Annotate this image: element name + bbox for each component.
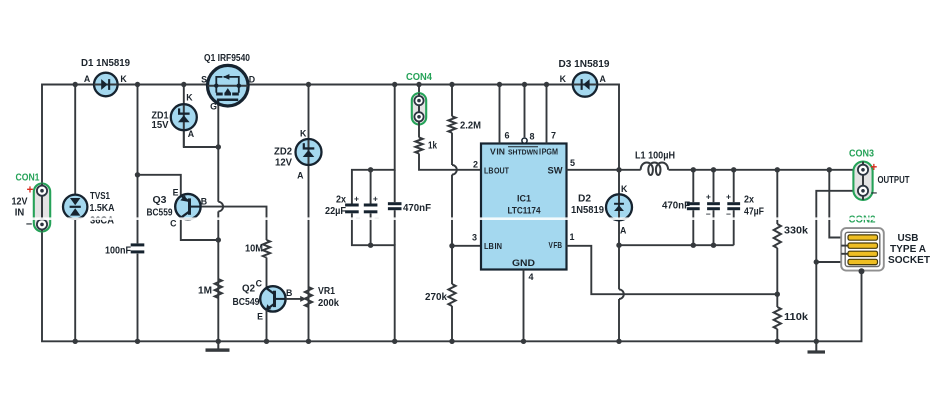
wire TVS1 branch (74, 85, 76, 342)
svg-text:USB: USB (898, 233, 919, 244)
svg-text:7: 7 (551, 131, 556, 141)
junction caps gnd left (616, 243, 621, 248)
svg-text:C: C (256, 279, 263, 289)
junction 110k ground (775, 339, 780, 344)
USB contact bar 3 (848, 251, 878, 256)
resistor 2.2M (448, 116, 455, 132)
junction 100nF top (135, 82, 140, 87)
svg-text:VR1: VR1 (318, 286, 335, 297)
svg-text:36CA: 36CA (90, 216, 114, 227)
wire output caps bottom rail (619, 244, 734, 246)
svg-text:V IN: V IN (490, 147, 505, 157)
junction TVS1 top (73, 82, 78, 87)
wire input capacitor bank riser and top rail (352, 85, 395, 204)
junction 47uF no1 top (711, 167, 716, 172)
svg-text:D3 1N5819: D3 1N5819 (559, 59, 610, 70)
zener ZD1 15V (171, 104, 197, 130)
wire Q2 emitter to ground rail (266, 310, 268, 341)
diode TVS1 1.5KA36CA (63, 195, 87, 219)
svg-text:BC549: BC549 (233, 297, 260, 308)
connector CON4 (412, 93, 426, 124)
junction caps riser top (392, 82, 397, 87)
junction SHTDWN riser (522, 82, 527, 87)
svg-text:G: G (210, 102, 217, 112)
hop 2.2M line over 1k wire (452, 165, 457, 175)
wire VFB pin1 to divider (567, 246, 778, 294)
svg-text:330k: 330k (784, 226, 808, 237)
capacitor 100nF (131, 243, 145, 246)
svg-text:TYPE A: TYPE A (890, 244, 926, 255)
wire L1 to CON3 plus (669, 169, 858, 171)
svg-text:22µF: 22µF (325, 206, 346, 217)
junction CON4 top (416, 82, 421, 87)
junction 330k top (775, 167, 780, 172)
svg-text:A: A (600, 74, 607, 84)
svg-text:12V: 12V (275, 158, 292, 169)
wire 10M to Q2 collector (266, 258, 268, 290)
junction 5V feed (827, 167, 832, 172)
resistor 1M (215, 279, 222, 298)
wire USB 5V feed (829, 170, 848, 238)
svg-text:12V: 12V (12, 197, 28, 208)
svg-text:Q3: Q3 (153, 195, 167, 206)
svg-text:LB OUT: LB OUT (484, 166, 510, 176)
wire 100nF branch (137, 85, 139, 244)
wire D2 anode to ground with hop over VFB line (618, 220, 620, 245)
svg-text:1k: 1k (428, 141, 437, 152)
wire SW output line to L1 and CON3 (567, 169, 641, 171)
resistor 110k (774, 307, 781, 329)
diode D3 1N5819 (573, 72, 597, 96)
svg-text:S: S (201, 75, 207, 85)
wire Q3 base to 10M (201, 207, 267, 240)
wire IC1 pin 8 SHTDWN riser (524, 85, 526, 138)
wire IC1 pin 7 IPGM riser (546, 85, 548, 144)
junction ground rail right (814, 339, 819, 344)
svg-text:–: – (726, 209, 731, 219)
svg-text:6: 6 (505, 131, 510, 141)
svg-text:4: 4 (529, 272, 534, 282)
connector CON2 USB socket inner (845, 232, 880, 266)
inductor L1 100uH (641, 162, 668, 175)
junction IC GND ground (521, 339, 526, 344)
junction VIN riser (497, 82, 502, 87)
wire output caps top stubs (692, 170, 694, 202)
svg-text:D2: D2 (578, 194, 591, 205)
USB contact bar 4 (848, 259, 878, 264)
svg-text:LB IN: LB IN (484, 241, 502, 251)
potentiometer VR1 200k (305, 287, 312, 307)
svg-text:+: + (373, 194, 378, 204)
svg-text:1: 1 (570, 232, 575, 242)
wire Q3 emitter stub (138, 175, 181, 196)
svg-text:SOCKET: SOCKET (888, 255, 930, 266)
junction SW D3 D2 node (616, 167, 621, 172)
diode D1 1N5819 (94, 73, 118, 97)
svg-text:A: A (620, 226, 627, 236)
svg-text:1M: 1M (198, 286, 212, 297)
IC IC1 LTC1174 box (481, 144, 567, 270)
svg-text:K: K (621, 184, 628, 194)
junction USB ground tap (814, 259, 819, 264)
svg-text:I PGM: I PGM (539, 148, 558, 157)
wire 330k 110k divider branch (776, 170, 778, 224)
svg-text:+: + (27, 185, 34, 197)
junction 1M ground (216, 339, 221, 344)
svg-text:Q2: Q2 (242, 284, 255, 295)
USB pin stubs D- D+ (841, 245, 848, 247)
svg-text:LTC1174: LTC1174 (508, 206, 542, 217)
junction Q3 emitter tap (135, 172, 140, 177)
svg-text:K: K (560, 74, 567, 84)
svg-text:CON3: CON3 (849, 149, 874, 160)
svg-text:100nF: 100nF (105, 246, 131, 257)
svg-text:BC559: BC559 (147, 208, 173, 219)
resistor 330k (774, 224, 781, 248)
junction ZD1 top (181, 82, 186, 87)
USB contact bar 1 (848, 235, 878, 240)
svg-text:A: A (297, 171, 304, 181)
capacitor 47uF no1 (707, 202, 720, 205)
svg-text:200k: 200k (318, 298, 339, 309)
svg-text:K: K (120, 74, 127, 84)
junction cap 22uF no2 top (368, 167, 373, 172)
junction 270k ground (449, 339, 454, 344)
svg-text:SW: SW (548, 166, 563, 177)
junction cap 22uF no2 bottom (368, 243, 373, 248)
junction gate and ZD1 anode (216, 144, 221, 149)
junction caps bottom rail to ground (392, 339, 397, 344)
svg-text:CON4: CON4 (406, 72, 432, 83)
junction D2 ground rail (616, 339, 621, 344)
resistor 10M (263, 240, 270, 258)
capacitor 22uF no2 (364, 204, 378, 207)
capacitor 47uF no2 (727, 202, 740, 205)
svg-text:1N5819: 1N5819 (571, 205, 604, 216)
resistor 270k (448, 284, 455, 306)
svg-text:2.2M: 2.2M (460, 121, 481, 132)
wire 2.2M LBIN 270k branch (451, 85, 453, 117)
connector CON4 riser (418, 85, 420, 94)
svg-text:15V: 15V (152, 120, 169, 131)
junction Q3 collector and 1M (216, 237, 221, 242)
zener ZD2 12V (296, 139, 322, 165)
diode D2 1N5819 (606, 194, 632, 220)
svg-text:8: 8 (530, 132, 535, 142)
svg-text:B: B (286, 288, 292, 298)
svg-text:2x: 2x (744, 195, 754, 206)
wire ZD1 branch from rail to gate node (183, 85, 185, 148)
svg-text:E: E (173, 188, 179, 198)
wire ZD2 VR1 branch (308, 85, 310, 141)
svg-text:D: D (249, 75, 255, 85)
svg-text:TVS1: TVS1 (90, 191, 110, 202)
svg-text:K: K (186, 93, 193, 103)
scan artifact white line (0, 217, 932, 220)
svg-text:OUTPUT: OUTPUT (878, 175, 910, 186)
wire bottom ground rail (42, 232, 862, 342)
ground symbol left (217, 341, 219, 349)
junction 470nF bottom (691, 243, 696, 248)
connector CON1 12V input (34, 184, 50, 232)
svg-text:47µF: 47µF (744, 207, 764, 218)
junction Q2 emitter ground (264, 339, 269, 344)
pin 8 inversion bubble (522, 138, 527, 143)
transistor Q1 IRF9540 P-MOSFET (208, 65, 249, 106)
wire Q3 collector stub (181, 218, 219, 241)
svg-text:SHTDWN: SHTDWN (508, 148, 538, 157)
junction USB shield bottom (859, 268, 865, 274)
svg-text:+: + (726, 192, 731, 202)
svg-text:Q1 IRF9540: Q1 IRF9540 (204, 53, 250, 64)
svg-text:3: 3 (472, 233, 477, 243)
svg-text:L1 100µH: L1 100µH (635, 151, 675, 162)
USB contact bar 2 (848, 243, 878, 248)
wire 1k to IC pin 2 LBOUT (419, 154, 481, 170)
junction 100nF bottom (135, 339, 140, 344)
svg-text:+: + (354, 194, 359, 204)
junction 47uF bottom (711, 243, 716, 248)
junction LBIN tap (449, 243, 454, 248)
wire Q2 base to VR1 wiper with arrow (286, 298, 303, 300)
junction 470nF top (691, 167, 696, 172)
svg-text:ZD2: ZD2 (274, 147, 292, 158)
ground symbol right (815, 341, 817, 351)
svg-text:E: E (257, 312, 263, 322)
svg-text:2x: 2x (336, 195, 346, 206)
junction IPGM riser (544, 82, 549, 87)
wire IC1 pin 4 GND to ground rail (523, 270, 525, 342)
svg-text:B: B (201, 197, 207, 207)
connector CON3 output (853, 162, 872, 200)
svg-text:–: – (706, 209, 711, 219)
svg-text:CON1: CON1 (16, 173, 40, 184)
wire LBIN stub to IC pin 3 (452, 245, 481, 247)
wire input capacitor bank bottom rail (352, 213, 395, 341)
capacitor 470nF output (687, 202, 700, 205)
svg-text:IC1: IC1 (517, 194, 532, 205)
svg-text:IN: IN (15, 208, 25, 219)
wire USB ground feed (816, 261, 848, 263)
junction divider mid VFB (775, 292, 780, 297)
transistor Q2 BC549 (260, 286, 285, 311)
connector CON2 USB socket outer (841, 228, 884, 271)
svg-text:470nF: 470nF (403, 203, 431, 214)
junction 47uF no2 top (731, 167, 736, 172)
wire top VIN rail from CON1+ to D3 then down to SW node (42, 85, 619, 195)
svg-text:V FB: V FB (549, 240, 563, 250)
wire IC1 pin 6 VIN riser (499, 85, 501, 144)
svg-text:2: 2 (473, 160, 478, 170)
svg-text:D1 1N5819: D1 1N5819 (81, 58, 130, 69)
transistor Q3 BC559 (175, 194, 200, 219)
wire CON4 to 1k (418, 125, 420, 138)
svg-text:110k: 110k (784, 312, 808, 323)
svg-text:+: + (706, 192, 711, 202)
svg-text:10M: 10M (245, 244, 263, 255)
capacitor 470nF input (388, 202, 402, 205)
svg-text:A: A (84, 74, 91, 84)
junction TVS1 bottom (73, 339, 78, 344)
resistor 1k (415, 138, 422, 154)
wire Q1 gate line down through hop to Q3 collector node and 1M (217, 106, 219, 202)
svg-text:270k: 270k (425, 292, 447, 303)
svg-text:–: – (871, 187, 877, 199)
wire CON3 minus to ground line (816, 191, 858, 341)
svg-text:+: + (871, 162, 878, 174)
junction VR1 bottom ground (306, 339, 311, 344)
svg-text:K: K (300, 128, 307, 138)
svg-text:470nF: 470nF (662, 201, 690, 212)
svg-text:5: 5 (570, 158, 575, 168)
capacitor 22uF no1 (345, 204, 359, 207)
svg-text:GND: GND (512, 258, 536, 268)
junction 2.2M top rail (449, 82, 454, 87)
svg-text:1.5KA: 1.5KA (90, 203, 115, 214)
svg-text:A: A (188, 129, 195, 139)
junction ZD2 top (306, 82, 311, 87)
